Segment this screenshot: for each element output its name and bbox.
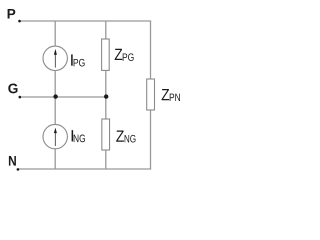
impedance ZPG bbox=[102, 39, 110, 70]
wire G rail bbox=[21, 96, 107, 98]
node G terminal dot bbox=[19, 96, 22, 99]
wire impedance branch G to N bbox=[105, 97, 107, 169]
current source ING bbox=[43, 124, 67, 148]
node label G bbox=[8, 83, 17, 93]
wire right branch upper (P to ZPN) bbox=[150, 21, 152, 79]
label ZPG bbox=[115, 49, 134, 61]
node P terminal dot bbox=[18, 20, 21, 23]
node label P bbox=[8, 9, 16, 19]
junction dot at G / current-source branch bbox=[53, 94, 57, 98]
current source IPG bbox=[43, 46, 67, 70]
wire current-source branch G to N bbox=[54, 97, 56, 169]
wire N bottom rail bbox=[19, 168, 152, 170]
label ZNG bbox=[116, 131, 135, 143]
node label N bbox=[9, 156, 16, 166]
junction dot at G / impedance branch bbox=[104, 94, 108, 98]
wire current-source branch P to G bbox=[54, 21, 56, 97]
wire P top rail bbox=[21, 20, 152, 22]
impedance ZNG bbox=[102, 119, 110, 150]
impedance ZPN bbox=[147, 79, 155, 110]
label ZPN bbox=[162, 89, 180, 101]
wire impedance branch P to G bbox=[105, 21, 107, 97]
label IPG bbox=[71, 54, 84, 66]
label ING bbox=[72, 130, 85, 142]
wire right branch lower (ZPN to N) bbox=[150, 110, 152, 169]
node N terminal dot bbox=[17, 168, 20, 171]
